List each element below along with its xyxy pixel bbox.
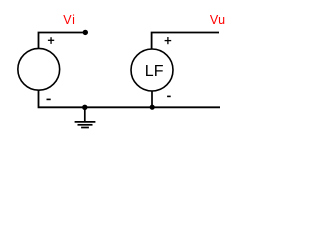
wire: LF top stub and Vu horizontal	[152, 33, 219, 50]
ground	[75, 107, 96, 127]
wire: LF bottom vertical stub	[151, 91, 153, 107]
polarity + of LF	[165, 37, 172, 44]
junction ground node dot	[82, 105, 87, 110]
wire: V1 bottom stub and bottom rail	[39, 90, 221, 107]
svg-text:LF: LF	[145, 63, 164, 80]
source LF (right circle)	[131, 49, 173, 91]
voltage source V1 (left circle)	[18, 48, 60, 90]
polarity - of V1	[47, 99, 51, 101]
polarity - of LF	[167, 96, 171, 98]
junction LF bottom node dot	[150, 105, 155, 110]
svg-text:Vu: Vu	[210, 13, 226, 27]
polarity + of V1	[48, 37, 54, 44]
wire: V1 top stub and Vi horizontal	[39, 33, 86, 49]
svg-text:Vi: Vi	[63, 13, 75, 27]
node Vi terminal dot	[83, 30, 88, 35]
